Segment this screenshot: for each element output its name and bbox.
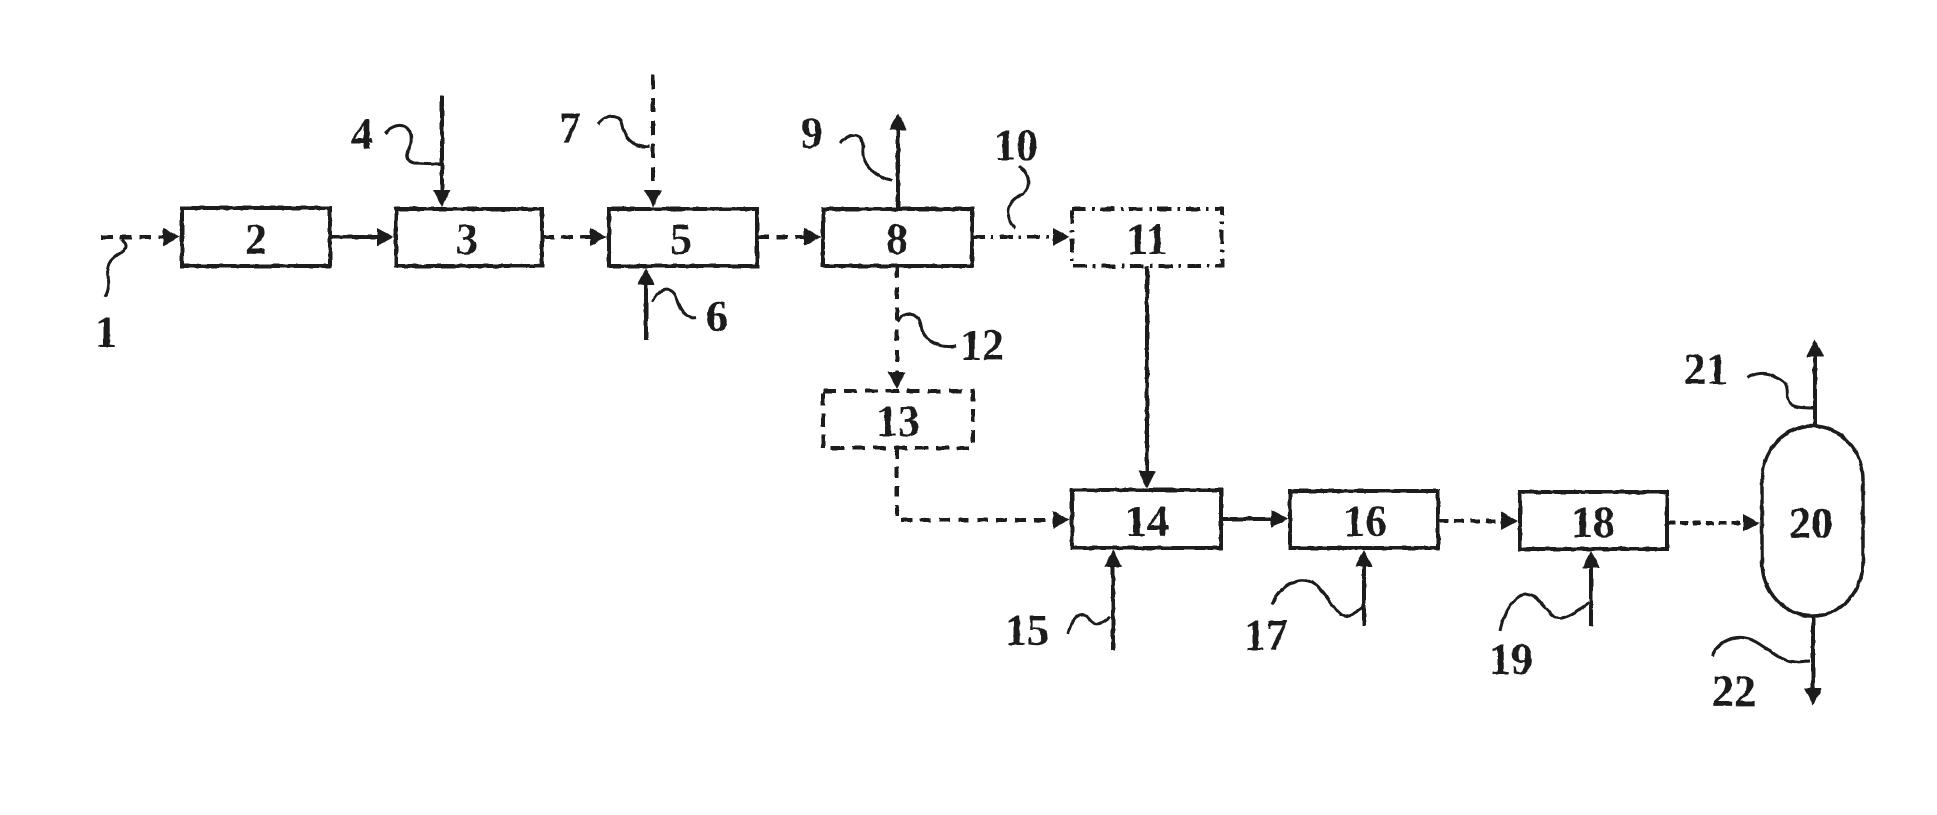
svg-text:20: 20: [1789, 499, 1833, 548]
box 13 (dashed border): [823, 391, 973, 448]
wire: solid arrow box 14 to box 16: [1221, 510, 1288, 528]
wire: solid feed 19 up into bottom of box 18: [1582, 551, 1600, 626]
svg-text:10: 10: [994, 121, 1038, 170]
wire: solid vent 9 up from top of box 8: [889, 113, 907, 209]
svg-text:17: 17: [1244, 611, 1288, 660]
svg-text:22: 22: [1712, 667, 1756, 716]
wire: solid from box 11 down into top of box 14: [1138, 266, 1156, 488]
svg-text:21: 21: [1684, 345, 1728, 394]
leader line for label 10: [1008, 166, 1028, 228]
leader line for label 4: [385, 125, 440, 164]
leader line for label 9: [840, 135, 892, 180]
svg-text:19: 19: [1489, 635, 1533, 684]
wire: solid feed 17 up into bottom of box 16: [1355, 550, 1373, 626]
svg-text:8: 8: [886, 215, 908, 264]
box 16: [1290, 491, 1438, 548]
leader line for label 1: [105, 239, 126, 297]
box 18: [1520, 492, 1667, 549]
wire: solid arrow box 2 to box 3: [330, 228, 394, 246]
box 11 (dash-dot border): [1072, 209, 1222, 266]
box 3: [396, 209, 542, 266]
svg-text:11: 11: [1126, 215, 1168, 264]
box 14: [1072, 490, 1221, 548]
wire: dashed arrow box 5 to box 8: [757, 228, 821, 246]
leader line for label 17: [1272, 580, 1363, 616]
box 5: [609, 209, 757, 266]
svg-text:7: 7: [559, 104, 581, 153]
leader line for label 21: [1747, 373, 1814, 408]
svg-text:3: 3: [456, 215, 478, 264]
svg-text:2: 2: [245, 215, 267, 264]
wire: dashed arrow box 16 to box 18: [1438, 512, 1518, 530]
wire: dashed feed arrow into box 2: [101, 228, 180, 246]
box 2: [182, 208, 330, 266]
wire: solid bottoms arrow 22 down from vessel 20: [1804, 617, 1822, 705]
leader line for label 7: [598, 116, 650, 147]
svg-text:15: 15: [1005, 606, 1049, 655]
svg-text:16: 16: [1343, 497, 1387, 546]
wire: dashed arrow box 8 down to box 13: [888, 266, 906, 389]
wire: solid feed 6 up into bottom of box 5: [637, 268, 655, 340]
leader line for label 6: [652, 290, 696, 318]
svg-text:9: 9: [801, 109, 823, 158]
wire: dashed from box 13 down then right into box 14: [897, 448, 1070, 529]
wire: solid feed 15 up into bottom of box 14: [1104, 550, 1122, 650]
svg-text:5: 5: [670, 215, 692, 264]
vessel 20 (capsule): [1762, 426, 1863, 616]
svg-text:18: 18: [1571, 498, 1615, 547]
wire: dashed arrow box 3 to box 5: [542, 228, 607, 246]
wire: solid feed 4 into top of box 3: [433, 95, 451, 207]
box 8: [823, 209, 972, 266]
leader line for label 15: [1068, 615, 1110, 634]
leader line for label 12: [897, 314, 956, 347]
leader line for label 22: [1712, 637, 1810, 662]
wire: dash-dot arrow box 8 to box 11: [972, 228, 1070, 246]
svg-text:4: 4: [351, 110, 373, 159]
svg-text:1: 1: [95, 308, 117, 357]
svg-text:6: 6: [706, 292, 728, 341]
wire: solid overhead arrow 21 up from vessel 20: [1806, 340, 1824, 426]
wire: dashed arrow box 18 to vessel 20: [1667, 514, 1760, 532]
wire: dashed feed 7 into top of box 5: [644, 75, 662, 207]
svg-text:12: 12: [960, 321, 1004, 370]
leader line for label 19: [1500, 594, 1589, 631]
svg-text:13: 13: [876, 397, 920, 446]
svg-text:14: 14: [1125, 497, 1169, 546]
